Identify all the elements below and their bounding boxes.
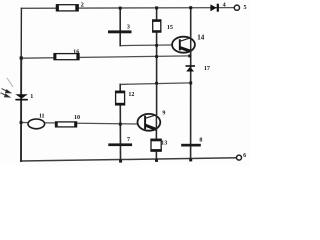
svg-text:10: 10 [74, 115, 80, 121]
svg-text:6: 6 [243, 153, 246, 159]
svg-text:1: 1 [30, 94, 33, 100]
svg-text:8: 8 [199, 138, 202, 144]
svg-text:14: 14 [197, 34, 205, 42]
svg-text:15: 15 [167, 25, 173, 31]
svg-text:2: 2 [81, 2, 84, 8]
svg-text:13: 13 [161, 141, 167, 147]
svg-text:9: 9 [162, 111, 165, 117]
svg-text:4: 4 [223, 2, 226, 8]
svg-text:5: 5 [243, 5, 246, 11]
svg-text:3: 3 [127, 24, 130, 30]
svg-text:17: 17 [204, 66, 210, 72]
svg-text:11: 11 [39, 113, 45, 119]
svg-text:16: 16 [73, 50, 79, 56]
svg-text:12: 12 [128, 92, 134, 98]
svg-text:7: 7 [127, 137, 130, 143]
